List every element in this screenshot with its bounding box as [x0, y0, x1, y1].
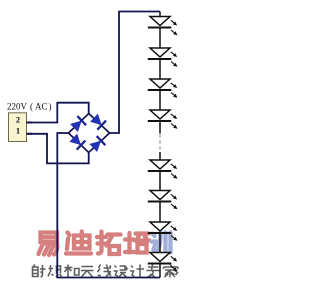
watermark line1 char 培	[125, 233, 150, 253]
LED D1	[148, 12, 176, 49]
bridge diode upper-right	[90, 113, 106, 130]
svg-text:(: (	[30, 102, 33, 112]
LED D3	[148, 79, 176, 110]
connector J1 220V(AC) body	[9, 113, 27, 142]
svg-text:2: 2	[16, 115, 20, 124]
connector pin 1 stub	[27, 133, 33, 135]
bridge diode lower-right	[89, 136, 105, 153]
LED D2	[148, 48, 176, 79]
watermark line2 char 设	[114, 266, 128, 278]
bridge rectifier diamond outline	[69, 114, 110, 153]
watermark line1 char 迪	[66, 232, 91, 254]
bridge diode upper-left	[70, 116, 86, 133]
wire bridge left corner to LED return (minus net)	[57, 133, 160, 278]
watermark line1 char 易	[39, 233, 58, 256]
watermark line2 char 计	[130, 265, 144, 278]
watermark line2 char 频	[48, 265, 62, 277]
watermark line2 char 射	[33, 265, 46, 278]
watermark line2 char 线	[98, 265, 112, 277]
svg-text:1: 1	[16, 126, 20, 135]
watermark line2 char 家	[164, 265, 179, 278]
wire pin1 to bridge bottom	[27, 134, 89, 164]
watermark line1 char 训	[152, 233, 171, 253]
connector pin 2 stub	[27, 122, 33, 124]
watermark line2 char 和	[65, 265, 80, 278]
LED D4	[148, 110, 176, 134]
LED D6	[148, 191, 176, 223]
LED D7	[148, 222, 176, 253]
watermark line2 char 天	[81, 267, 94, 278]
svg-text:): )	[49, 102, 52, 112]
svg-text:220V: 220V	[7, 102, 28, 112]
LED D8	[148, 253, 176, 278]
LED D5	[148, 152, 176, 191]
svg-text:AC: AC	[35, 102, 48, 112]
watermark line1 char 拓	[97, 232, 121, 255]
dashed continuation between LED D4 and LED D5	[159, 135, 161, 152]
wire bridge right corner to LED chain top (plus net)	[110, 12, 161, 134]
wire pin2 to bridge top	[27, 103, 89, 123]
watermark line2 char 专	[147, 265, 160, 278]
bridge diode lower-left	[69, 133, 85, 150]
